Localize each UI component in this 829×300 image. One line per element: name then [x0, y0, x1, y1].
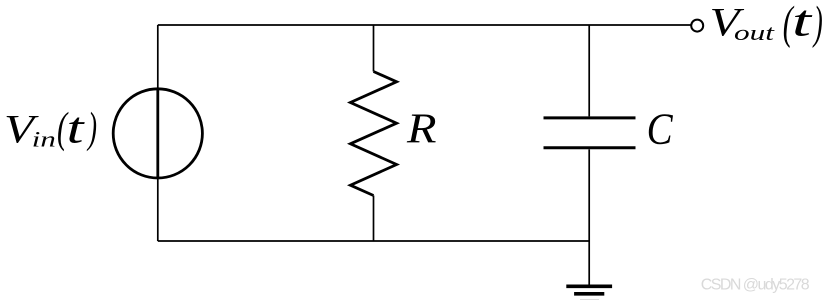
svg-text:): ) [86, 105, 97, 152]
svg-text:): ) [812, 0, 823, 49]
svg-text:CSDN @udy5278: CSDN @udy5278 [701, 276, 810, 293]
svg-text:t: t [67, 104, 86, 153]
svg-text:in: in [32, 127, 56, 152]
svg-text:R: R [406, 107, 437, 153]
svg-text:C: C [647, 103, 674, 153]
svg-text:t: t [792, 0, 814, 46]
svg-text:out: out [734, 20, 775, 45]
